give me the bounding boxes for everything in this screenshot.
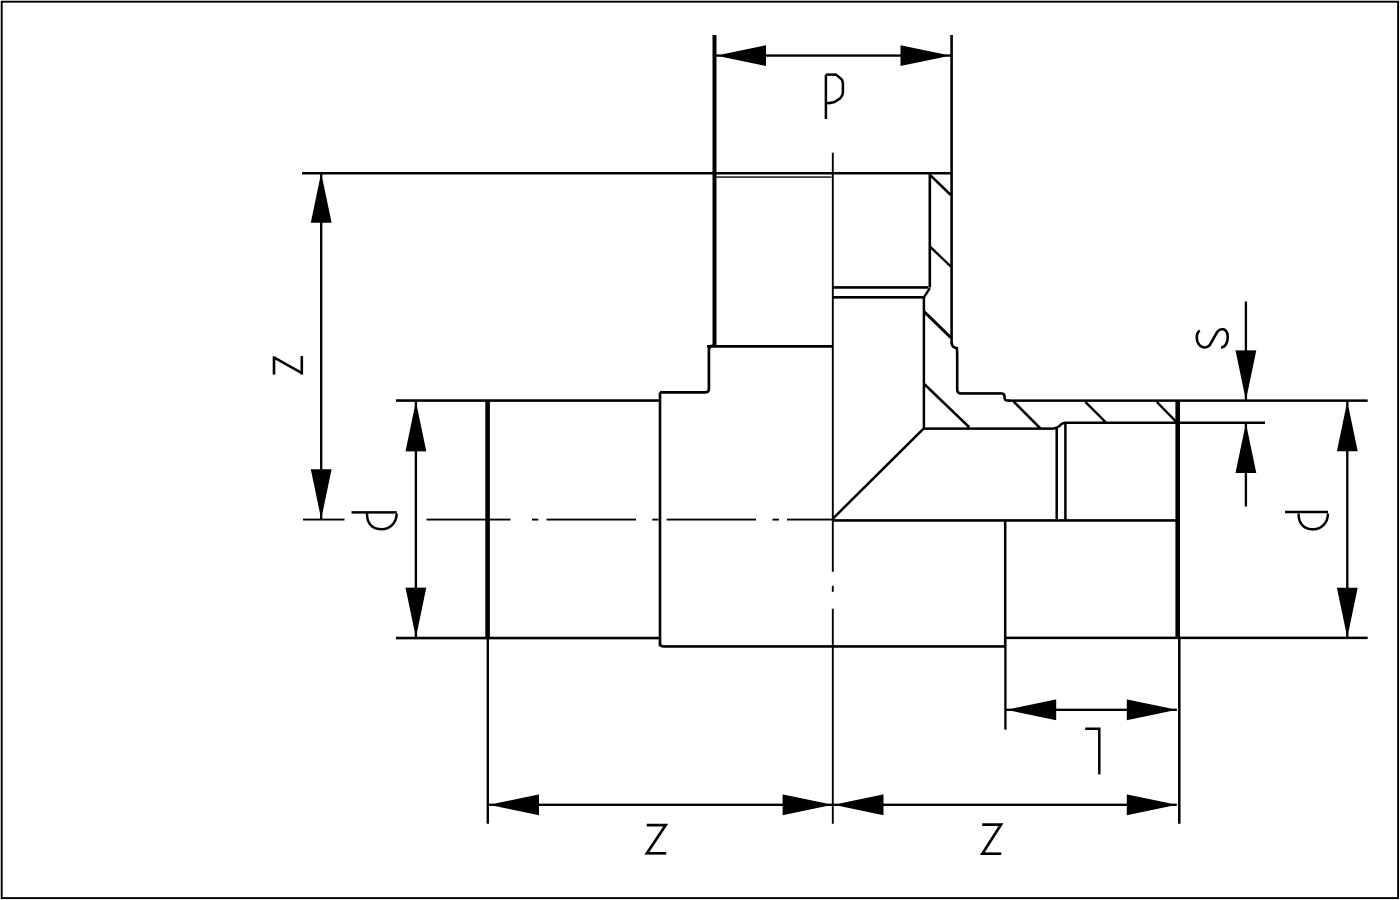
dimension p arrow left [716, 45, 766, 66]
hatch 1 top band [931, 176, 951, 195]
top socket end face [302, 172, 951, 175]
top socket bore right [928, 173, 931, 287]
dimension d right line [1346, 401, 1348, 638]
dimension z left arrow bottom [311, 469, 332, 519]
right socket floor edge [1055, 427, 1058, 520]
dimension d right arrow top [1337, 401, 1358, 451]
right socket bottom with extension [1005, 637, 1368, 640]
left mouth extension line [487, 638, 489, 823]
dimension l extension left [1004, 639, 1006, 730]
top socket mouth chamfer line [716, 176, 832, 178]
dimension d left line [415, 401, 417, 638]
top branch left wall with extension [713, 35, 717, 346]
dimension z bottom right arrow right [1127, 794, 1177, 815]
body step face right [1004, 520, 1007, 646]
label z bottom right [982, 825, 1001, 854]
body step face left [659, 392, 662, 646]
right socket outer top with extension [1008, 399, 1368, 402]
run socket outer top left [396, 399, 660, 402]
centerline vertical (branch axis) [832, 153, 834, 824]
label s (rotated) [1197, 329, 1228, 347]
dimension s arrow lower [1236, 423, 1257, 473]
top socket floor lower edge [833, 296, 924, 299]
dimension z bottom right arrow left [834, 794, 884, 815]
hatch 7 right band [1157, 402, 1177, 423]
label p [826, 75, 843, 119]
body bottom outline [660, 643, 1005, 646]
dimension z bottom left arrow left [489, 794, 539, 815]
label z left (rotated) [274, 356, 302, 375]
dimension s lines [1245, 302, 1247, 401]
hatch 4 corner [924, 384, 969, 427]
run socket outer bottom left [396, 637, 660, 640]
hatch 5 right band [1014, 402, 1041, 429]
right socket end face [1175, 401, 1180, 638]
dimension z bottom right line [834, 804, 1177, 806]
label d left (rotated) [352, 512, 397, 529]
dimension l arrow left [1006, 699, 1056, 720]
left socket mouth edge [485, 401, 490, 639]
label z bottom left [647, 825, 666, 853]
half section boundary line [833, 519, 1176, 522]
label l [1085, 729, 1099, 775]
top branch right wall with extension [950, 35, 953, 344]
right end extension line [1178, 638, 1181, 824]
dimension l line [1006, 709, 1177, 711]
hatch 2 top band [930, 247, 951, 267]
label d right (rotated) [1285, 512, 1328, 529]
dimension d left arrow bottom [406, 588, 427, 638]
left shoulder outline [660, 345, 715, 392]
centerline horizontal (run axis) [303, 519, 833, 521]
dimension d left arrow top [406, 401, 427, 451]
dimension z bottom left arrow right [783, 794, 833, 815]
left shoulder step face [707, 345, 833, 348]
branch bore wall [923, 297, 926, 428]
dimension p line [716, 54, 951, 56]
dimension z bottom left line [489, 804, 833, 806]
dimension z left arrow top [311, 173, 332, 223]
run bore line left part [924, 423, 1265, 429]
hatch 3 top band [924, 311, 951, 337]
top socket floor chamfer [924, 288, 930, 297]
hatch 6 right band [1085, 402, 1106, 423]
dimension z left line [320, 173, 322, 520]
right shoulder outline to right socket outer [952, 343, 1010, 401]
dimension s arrow upper [1236, 350, 1257, 400]
dimension d right arrow bottom [1337, 588, 1358, 638]
top socket floor upper edge [833, 286, 929, 289]
right socket floor chamfer edge [1064, 423, 1067, 519]
cone transition edge [833, 428, 924, 519]
dimension l arrow right [1127, 699, 1177, 720]
dimension p arrow right [901, 45, 951, 66]
